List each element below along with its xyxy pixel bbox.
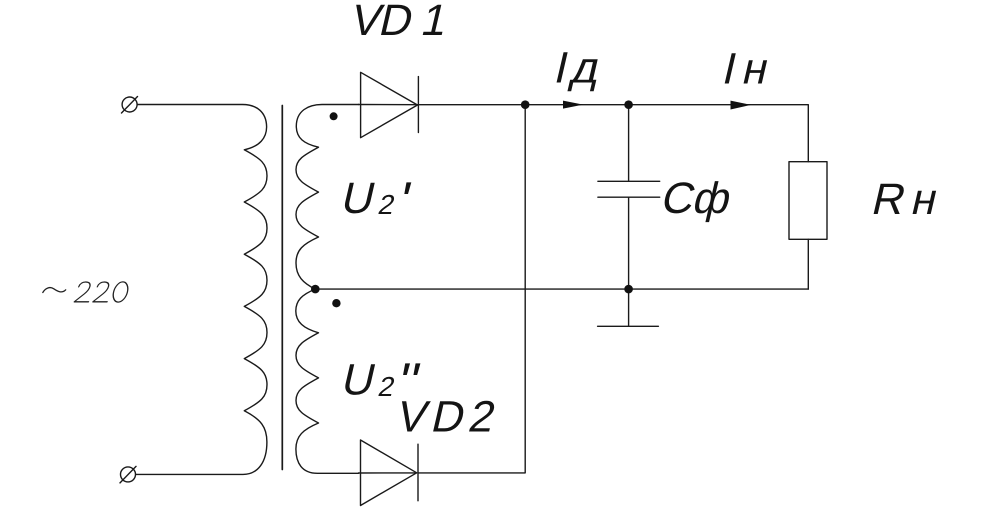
svg-text:VD2: VD2 (392, 393, 505, 441)
svg-text:VD 1: VD 1 (347, 0, 452, 45)
svg-text:Сф: Сф (657, 175, 736, 223)
